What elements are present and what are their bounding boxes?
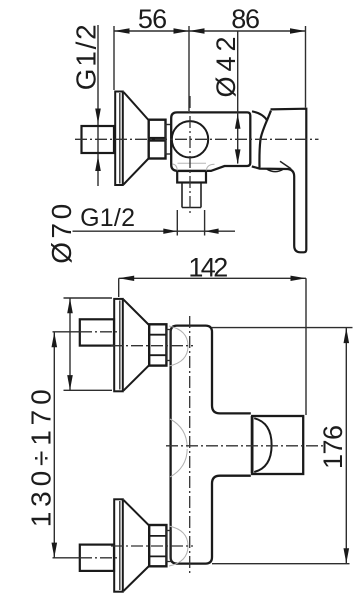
Ø42 arrow down [235, 149, 241, 164]
nut middle band [149, 137, 166, 142]
G1/2 leader line [97, 25, 99, 186]
faucet body (front view) [171, 326, 251, 564]
top inlet boss [167, 330, 172, 361]
faint waterway arc bottom inlet [169, 526, 188, 566]
G1/2 outlet ext line right [204, 210, 206, 236]
top inlet rim inner line [119, 301, 121, 390]
hex nut (side view) [149, 120, 166, 159]
extension line x=114 [113, 26, 115, 90]
176 ext top [212, 327, 353, 329]
bottom inlet hex nut [149, 525, 166, 566]
centerline vertical top drawing [189, 96, 191, 214]
Ø70 arrow down [67, 375, 73, 390]
top inlet cone upper slant [124, 300, 150, 325]
outlet flange [177, 171, 206, 183]
G1/2 outlet dimension line [73, 230, 236, 232]
G1/2 outlet arrow right [205, 229, 219, 234]
wall connector square (side view) [82, 126, 115, 153]
130÷170 arrow up [52, 332, 58, 347]
extension line x=305.5 [305, 26, 307, 108]
boss between nut and body [166, 125, 172, 155]
142 arrow right [291, 276, 307, 281]
Ø70 arrow up [67, 298, 73, 313]
top inlet hex nut [149, 324, 166, 365]
centerline top inlet square [53, 331, 81, 333]
top inlet cone lower slant [124, 365, 150, 390]
svg-text:Ø70: Ø70 [46, 204, 77, 264]
130÷170 dimension line [53, 332, 55, 558]
svg-text:G1/2: G1/2 [70, 24, 101, 90]
svg-text:130÷170: 130÷170 [25, 389, 56, 527]
faint waterway arc top inlet [169, 326, 188, 366]
valve body (side view) [171, 112, 250, 170]
G1/2 outlet arrow left [163, 229, 177, 234]
142 arrow left [119, 276, 135, 281]
outlet pipe [182, 183, 201, 208]
arrow 86 right [290, 28, 306, 33]
Ø70 tick top [64, 297, 113, 299]
176 arrow down [344, 548, 350, 563]
lever handle [252, 109, 306, 253]
centerline horizontal top drawing [75, 138, 319, 140]
bottom inlet: escutcheon rim [114, 499, 123, 591]
176 dimension line [345, 328, 347, 564]
cone lower slant [124, 159, 149, 185]
arrow 56 left [114, 28, 130, 33]
176 ext bottom [212, 563, 350, 565]
arrow 86 left [189, 28, 205, 33]
centerline cylinder [166, 445, 325, 447]
bottom inlet boss [167, 531, 172, 562]
svg-text:Ø42: Ø42 [211, 36, 241, 97]
svg-text:56: 56 [138, 4, 167, 34]
faint fillet right of outlet [206, 164, 214, 170]
Ø42 dimension line [237, 32, 239, 164]
cap dome arc [254, 418, 271, 472]
set screw bump [267, 169, 283, 171]
142 dimension line [119, 277, 306, 279]
extension line x=189 [188, 26, 190, 111]
faint waterway arc neck bottom [170, 449, 187, 477]
cartridge dome arc [252, 111, 267, 120]
valve cap circle [172, 121, 208, 157]
rim inner line [119, 93, 121, 184]
svg-text:86: 86 [231, 4, 260, 34]
cartridge flange [251, 416, 254, 474]
142 ext left [118, 278, 120, 297]
G1/2 outlet ext line left [176, 210, 178, 236]
G1/2 arrow down [95, 109, 101, 124]
centerline vertical bottom drawing [189, 316, 191, 575]
dimension line 56/86 [114, 30, 306, 32]
G1/2 arrow up [95, 156, 101, 171]
130÷170 arrow down [52, 543, 58, 558]
top inlet nut facet lines [149, 335, 166, 356]
centerline top inlet nut [111, 345, 193, 347]
Ø42 arrow up [235, 114, 241, 129]
top inlet: wall square [80, 319, 114, 345]
svg-text:G1/2: G1/2 [80, 204, 135, 232]
svg-text:176: 176 [318, 425, 348, 469]
bottom inlet: wall square [80, 545, 114, 571]
arrow 56 right [174, 28, 190, 33]
escutcheon rim (side view) [115, 92, 123, 186]
142 ext right [305, 278, 307, 415]
bottom inlet nut facet lines [149, 536, 166, 557]
bottom inlet rim inner line [119, 501, 121, 590]
Ø70 tick bottom [64, 389, 113, 391]
Ø70 dimension line [69, 298, 71, 390]
faint waterway line outlet [178, 162, 207, 164]
faint waterway arc neck top [170, 419, 187, 448]
top inlet: escutcheon rim [114, 299, 123, 391]
bottom inlet cone lower slant [124, 566, 150, 591]
faint fillet left of outlet [173, 164, 178, 171]
bottom inlet cone upper slant [124, 500, 150, 525]
176 arrow up [344, 328, 350, 343]
cartridge cap [252, 416, 303, 474]
centerline bottom inlet nut [111, 545, 193, 547]
centerline bottom inlet square [53, 557, 81, 559]
handle slant edge [259, 111, 270, 168]
cone upper slant [124, 92, 149, 120]
lever chamfer line [280, 161, 291, 169]
